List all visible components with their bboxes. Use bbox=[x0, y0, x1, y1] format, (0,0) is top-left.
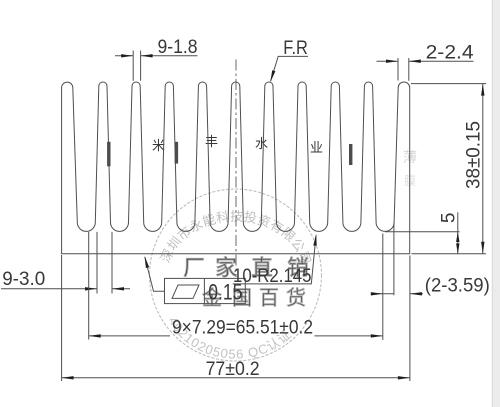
watermark faint scatter above circle bbox=[152, 134, 417, 188]
svg-text:9-1.8: 9-1.8 bbox=[158, 37, 198, 58]
extension lines fin root bbox=[97, 232, 112, 294]
arrowhead up bbox=[481, 84, 484, 96]
label F.R with leader bbox=[270, 38, 308, 82]
svg-text:77±0.2: 77±0.2 bbox=[206, 359, 260, 380]
extension lines fin width bbox=[133, 51, 140, 81]
svg-text:百: 百 bbox=[259, 288, 279, 310]
dimension 2-2.4 bbox=[377, 42, 475, 81]
leader arrowhead bbox=[313, 234, 316, 246]
scanner edge band right bbox=[492, 0, 500, 407]
leader line with underline bbox=[233, 236, 316, 284]
dimension line 5 bbox=[457, 212, 459, 253]
svg-text:业: 业 bbox=[310, 140, 323, 155]
svg-text:9×7.29=65.51±0.2: 9×7.29=65.51±0.2 bbox=[172, 317, 313, 338]
heatsink outline bbox=[62, 82, 410, 254]
extension lines body edges bbox=[62, 255, 410, 381]
svg-text:9-3.0: 9-3.0 bbox=[2, 269, 45, 290]
flatness leader bbox=[145, 257, 165, 291]
arrowhead left bbox=[89, 334, 101, 337]
watermark seal bbox=[150, 134, 418, 362]
dimension 9x7.29=65.51±0.2 bbox=[89, 232, 383, 340]
dimension line (2-3.59) bbox=[374, 293, 423, 295]
dimension line 9-1.8 bbox=[115, 55, 198, 57]
arrowhead right bbox=[410, 292, 422, 295]
watermark outer circle bbox=[150, 189, 322, 361]
dimension line 77 bbox=[62, 377, 410, 379]
svg-text:38±0.15: 38±0.15 bbox=[464, 121, 485, 189]
arrowhead up bbox=[456, 232, 459, 242]
dimension line 9-3.0 bbox=[1, 288, 130, 290]
dimension (2-3.59) bbox=[371, 223, 490, 297]
parallelogram symbol bbox=[172, 285, 199, 298]
dimension line 2-2.4 bbox=[377, 60, 474, 62]
arrowhead down bbox=[456, 243, 459, 253]
dimension line 65.51 bbox=[89, 335, 383, 337]
arrowhead right bbox=[112, 287, 124, 290]
svg-text:5: 5 bbox=[439, 213, 460, 224]
arrowhead down bbox=[481, 242, 484, 254]
dimension 77±0.2 (bottom) bbox=[62, 255, 410, 381]
svg-text:2-2.4: 2-2.4 bbox=[426, 42, 474, 63]
dimension 5 (base height, right) bbox=[385, 212, 460, 253]
leader line F.R bbox=[271, 56, 308, 81]
frame divider bbox=[203, 278, 205, 303]
leader arrowhead bbox=[145, 256, 150, 268]
dark bar artifact fin9 bbox=[349, 144, 352, 165]
watermark big row 2 bbox=[202, 287, 306, 310]
arrowhead right bbox=[141, 54, 153, 57]
extension lines end fin bbox=[398, 58, 409, 81]
svg-text:货: 货 bbox=[286, 287, 306, 310]
arrowhead left bbox=[62, 376, 74, 379]
extension line top bbox=[411, 83, 486, 85]
center line bbox=[235, 60, 237, 278]
flatness tolerance frame bbox=[145, 256, 246, 304]
dark bar artifact fin2 bbox=[107, 142, 110, 167]
arrowhead left bbox=[85, 287, 97, 290]
dimension 9-3.0 (left) bbox=[1, 232, 130, 294]
dark bar artifact fin4 bbox=[175, 142, 178, 164]
svg-text:厂: 厂 bbox=[183, 256, 205, 280]
arrowhead left bbox=[121, 54, 133, 57]
watermark big row 1 厂家直销 bbox=[183, 256, 309, 280]
extension line bottom bbox=[412, 253, 487, 255]
label 10-R2.145 with leader bbox=[233, 234, 317, 287]
svg-text:水: 水 bbox=[255, 136, 268, 151]
extension line base top bbox=[385, 231, 460, 233]
arrowhead left bbox=[386, 60, 398, 63]
leader arrowhead F.R bbox=[270, 70, 275, 82]
extension lines groove centers bbox=[89, 232, 383, 340]
svg-text:丰: 丰 bbox=[205, 134, 218, 149]
feature control frame box bbox=[165, 278, 246, 303]
svg-text:(2-3.59): (2-3.59) bbox=[425, 275, 490, 296]
arrowhead left bbox=[371, 292, 383, 295]
arrowhead right bbox=[371, 334, 383, 337]
dimension 38±0.15 (right vertical) bbox=[411, 84, 486, 254]
arrowhead right bbox=[409, 60, 421, 63]
dimension line 38 bbox=[482, 84, 484, 254]
arrowhead right bbox=[398, 376, 410, 379]
extension line groove edge bbox=[393, 223, 395, 296]
dimension 9-1.8 bbox=[115, 37, 198, 81]
